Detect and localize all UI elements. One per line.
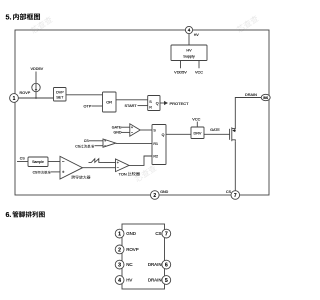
block diagram boundary box [15, 30, 269, 195]
reference label CS constant current [33, 171, 51, 175]
svg-text:CS: CS [75, 145, 81, 149]
svg-text:Q: Q [162, 133, 165, 137]
svg-text:ROVP: ROVP [126, 247, 139, 252]
pin 2 GND circle on bottom border [151, 191, 160, 200]
svg-text:HV: HV [126, 278, 132, 283]
svg-text:OTP: OTP [84, 104, 92, 108]
sawtooth ramp symbol [89, 159, 105, 163]
svg-text:5/6: 5/6 [263, 96, 268, 100]
svg-text:5.: 5. [6, 13, 12, 22]
package pin 6 DRAIN [148, 260, 171, 269]
svg-text:R1: R1 [153, 142, 158, 146]
svg-text:4: 4 [188, 28, 191, 33]
svg-text:START: START [125, 104, 138, 108]
svg-text:2: 2 [153, 193, 156, 199]
error amplifier U4 (transconductance) [60, 156, 83, 179]
svg-text:R: R [149, 105, 152, 109]
svg-text:7: 7 [165, 232, 168, 238]
wire Sample to error amp inverting input [48, 161, 60, 163]
wire CS to Sample block [17, 161, 28, 163]
package pin 5 DRAIN [148, 276, 171, 285]
comparator U2 gate sense [130, 124, 140, 136]
wire HV supply to VCC output [198, 61, 200, 69]
diagram title 5 [6, 13, 41, 22]
wire CS overcurrent ref to OCP comparator [95, 145, 104, 147]
svg-text:Q: Q [156, 102, 159, 106]
svg-text:NC: NC [126, 262, 132, 267]
wire TON comparator to latch R2 [129, 156, 152, 165]
comparator U5 TON [116, 159, 130, 172]
pin 4 HV circle on top border [185, 26, 192, 33]
wire GATE to comparator [121, 126, 130, 128]
protect SR latch U1 [148, 96, 160, 111]
package pin 4 HV [115, 276, 132, 285]
PWM latch U6 [152, 125, 166, 165]
wire comparator to latch S [140, 129, 152, 131]
svg-text:CS: CS [33, 171, 38, 175]
svg-text:PROTECT: PROTECT [170, 101, 190, 106]
svg-text:DRAIN: DRAIN [148, 262, 162, 267]
reference label CS overcurrent [75, 145, 94, 149]
OR gate block [103, 92, 117, 112]
svg-text:VDD5V: VDD5V [174, 70, 187, 74]
wire VCC to DRV [196, 122, 198, 127]
svg-text:CS: CS [226, 190, 232, 194]
junction current source to ROVP wire [35, 97, 37, 99]
wire MOSFET source to CS pin [234, 142, 236, 191]
watermark top-left [30, 15, 54, 34]
svg-text:DRAIN: DRAIN [148, 278, 162, 283]
pin 5/6 DRAIN ellipse on right border [261, 94, 270, 100]
diagram title 6 [6, 211, 45, 219]
arrow PROTECT [164, 101, 168, 105]
OVP SET block [54, 88, 67, 102]
wire latch Q to DRV [166, 133, 191, 135]
svg-text:GND: GND [160, 190, 168, 194]
package pin 1 GND [115, 229, 136, 238]
package pin 7 CS [155, 229, 170, 238]
label TON comparator [119, 171, 140, 176]
svg-text:4: 4 [118, 278, 121, 284]
svg-text:VDD5V: VDD5V [31, 67, 44, 71]
wire HV supply to VDD5V output [180, 61, 182, 69]
svg-text:OVP: OVP [56, 91, 64, 95]
power MOSFET Q1 [230, 127, 236, 142]
svg-text:GND: GND [114, 131, 122, 135]
package pin 2 ROVP [115, 245, 139, 254]
svg-text:TON: TON [119, 171, 127, 176]
HV Supply block [171, 45, 207, 61]
current source I1 [32, 72, 40, 99]
svg-text:7: 7 [234, 193, 237, 199]
wire OCP comparator to latch R1 [116, 142, 152, 144]
svg-text:GATE: GATE [112, 125, 122, 129]
svg-text:DRV: DRV [194, 131, 202, 135]
wire OR to protect latch S input [116, 99, 148, 101]
svg-text:SET: SET [56, 95, 64, 99]
IC package outline [122, 224, 165, 289]
svg-text:VCC: VCC [192, 118, 200, 122]
svg-text:Sample: Sample [32, 160, 44, 164]
pin 7 CS circle on bottom border [231, 191, 240, 200]
wire START to protect latch R input [138, 105, 148, 107]
svg-text:CS: CS [155, 231, 161, 236]
svg-text:GATE: GATE [210, 128, 220, 132]
svg-text:CS: CS [84, 139, 89, 143]
svg-text:CS: CS [20, 157, 26, 161]
DRV driver block [191, 127, 204, 139]
svg-text:5: 5 [165, 278, 168, 284]
wire pin1 to OVP SET [18, 97, 53, 99]
wire Q to PROTECT arrow [160, 102, 164, 104]
pin 1 ROVP circle [10, 94, 19, 103]
svg-text:3: 3 [118, 263, 121, 269]
wire ramp to TON comparator [104, 162, 116, 164]
svg-text:6: 6 [165, 263, 168, 269]
label transconductance amplifier [71, 175, 90, 179]
wire OVP SET to OR gate [66, 94, 103, 96]
svg-text:1: 1 [13, 96, 16, 102]
package pin 3 NC [115, 260, 132, 269]
svg-text:R2: R2 [153, 155, 158, 159]
svg-text:OR: OR [106, 100, 112, 105]
svg-text:1: 1 [118, 232, 121, 238]
svg-text:GND: GND [126, 231, 136, 236]
svg-text:Supply: Supply [183, 54, 195, 58]
wire DRV to MOSFET gate [204, 133, 230, 135]
wire CS to OCP comparator [89, 140, 103, 142]
svg-text:HV: HV [186, 49, 192, 53]
wire OTP to OR gate [92, 105, 103, 107]
wire pin4 to HV supply [188, 34, 190, 45]
Sample block [28, 157, 48, 167]
watermark center-bottom [134, 164, 158, 183]
comparator U3 OCP [103, 139, 116, 147]
svg-text:ROVP: ROVP [20, 91, 31, 95]
wire error amp to TON comparator [83, 167, 116, 169]
svg-text:6.: 6. [6, 212, 12, 219]
wire MOSFET drain to DRAIN pin [235, 98, 261, 127]
svg-text:2: 2 [118, 247, 121, 253]
wire CS constant current ref to error amp [51, 171, 61, 173]
watermark top-right [236, 14, 260, 33]
svg-text:DRAIN: DRAIN [245, 93, 257, 97]
svg-text:VCC: VCC [195, 70, 203, 74]
wire GND to comparator [121, 131, 130, 133]
svg-text:HV: HV [194, 33, 200, 37]
